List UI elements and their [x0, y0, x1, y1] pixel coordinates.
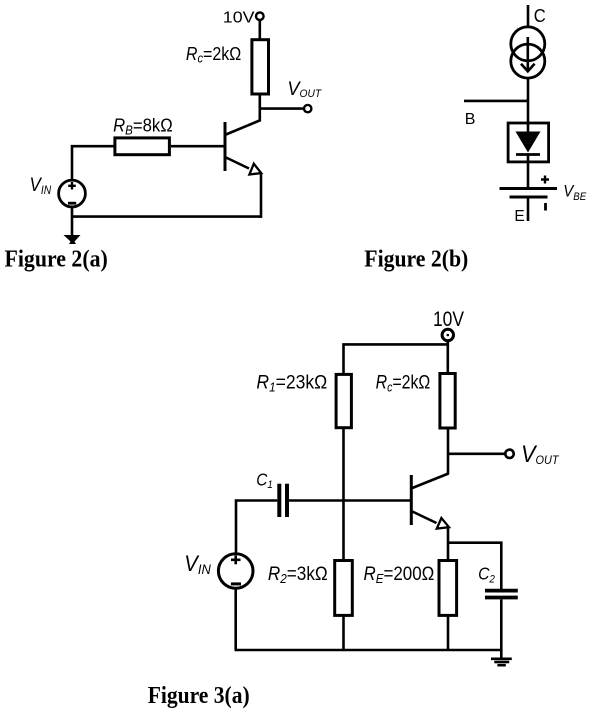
svg-text:R2=3kΩ: R2=3kΩ — [268, 564, 328, 586]
capacitor C2 — [485, 591, 518, 598]
wire C1 left to VIN top — [236, 501, 277, 555]
svg-text:10V: 10V — [223, 9, 255, 26]
wire R2 bottom to rail — [342, 615, 345, 650]
label + (battery plus) — [541, 176, 549, 184]
transistor Q1 (NPN, Figure 3a) — [411, 474, 449, 529]
label VIN (Figure 3a) — [184, 551, 211, 577]
label Rc=2kΩ (Figure 3a) — [376, 372, 431, 395]
svg-text:C: C — [534, 6, 546, 26]
svg-text:Figure 2(b): Figure 2(b) — [364, 247, 468, 273]
label R2=3kΩ — [268, 564, 328, 586]
label VIN (Figure 2a) — [30, 175, 52, 197]
label B — [465, 111, 476, 128]
battery VBE — [500, 189, 558, 198]
svg-text:RE=200Ω: RE=200Ω — [364, 564, 435, 586]
svg-text:Figure 2(a): Figure 2(a) — [5, 246, 108, 272]
wire collector node to VOUT terminal — [448, 452, 505, 455]
svg-text:B: B — [465, 111, 476, 128]
ground (Figure 3a) — [491, 659, 512, 665]
current source (two overlapped circles with arrow) — [511, 27, 545, 78]
node VOUT terminal (open circle) — [304, 105, 311, 112]
resistor R1=23kΩ — [336, 374, 351, 427]
wire VIN bottom to ground — [71, 207, 74, 236]
wire RB left to VIN top — [72, 146, 114, 180]
wire top rail (Figure 3a) — [344, 341, 448, 374]
wire current source to diode box — [527, 78, 530, 123]
wire base line C1 to base — [287, 499, 410, 502]
caption Figure 3(a) — [148, 683, 250, 709]
node 10V terminal (circle with dot) — [442, 329, 453, 340]
wire VIN bottom to bottom rail — [234, 589, 237, 651]
resistor Rc=2kΩ (Figure 3a) — [440, 374, 455, 429]
label - (battery minus tick) — [544, 203, 547, 211]
svg-text:10V: 10V — [433, 308, 464, 331]
source VIN (Figure 3a) — [218, 554, 253, 589]
wire Rc bottom to collector node — [447, 428, 450, 475]
wire Rc bottom to collector — [258, 94, 261, 121]
wire base to RB — [171, 145, 224, 148]
wire bottom rail (Figure 2a) — [72, 215, 261, 218]
node 10V terminal (open circle) — [256, 12, 264, 20]
label 10V (Figure 3a supply) — [433, 308, 464, 331]
label R1=23kΩ — [256, 372, 327, 395]
svg-text:Figure 3(a): Figure 3(a) — [148, 683, 250, 709]
wire C2 bottom to ground node — [500, 599, 503, 659]
caption Figure 2(a) — [5, 246, 108, 272]
svg-text:E: E — [514, 208, 524, 225]
svg-text:R1=23kΩ: R1=23kΩ — [256, 372, 327, 395]
wire diode box to battery — [527, 162, 530, 189]
label C1 — [256, 469, 273, 491]
label C — [534, 6, 546, 26]
wire Vcc down to Rc — [446, 343, 449, 374]
wire 10V terminal to Rc top — [258, 20, 261, 39]
wire emitter to bottom rail — [260, 173, 263, 218]
svg-text:Rc=2kΩ: Rc=2kΩ — [186, 44, 241, 66]
wire base lead B — [464, 100, 528, 103]
label VOUT — [287, 78, 322, 100]
label C2 — [478, 563, 495, 585]
resistor R2=3kΩ — [335, 561, 353, 616]
resistor RB=8kΩ — [115, 138, 169, 155]
resistor RE=200Ω — [439, 561, 457, 616]
wire bottom rail (Figure 3a) — [235, 649, 502, 652]
svg-text:RB=8kΩ: RB=8kΩ — [113, 116, 173, 138]
diode D1 in box — [508, 123, 548, 162]
wire collector lead C — [527, 5, 530, 28]
node VOUT terminal (Figure 3a) — [505, 450, 513, 458]
label RB=8kΩ — [113, 116, 173, 138]
wire emitter down to RE and branch to C2 — [448, 526, 501, 589]
label Rc=2kΩ — [186, 44, 241, 66]
resistor Rc=2kΩ (Figure 2a) — [252, 40, 269, 94]
caption Figure 2(b) — [364, 247, 468, 273]
wire node to VOUT terminal — [260, 107, 304, 110]
source VIN (Figure 2a) — [59, 180, 86, 207]
label 10V (Figure 2a supply) — [223, 9, 255, 26]
svg-text:Rc=2kΩ: Rc=2kΩ — [376, 372, 431, 395]
ground (Figure 2a) — [64, 235, 81, 244]
capacitor C1 — [279, 484, 287, 517]
wire RE bottom to rail — [447, 615, 450, 650]
label E — [514, 208, 524, 225]
label VBE — [563, 181, 587, 203]
label RE=200Ω — [364, 564, 435, 586]
transistor Q1 (NPN, Figure 2a) — [225, 120, 261, 175]
wire emitter lead E — [527, 197, 530, 221]
label VOUT (Figure 3a) — [521, 441, 560, 468]
wire R1 bottom through base node to R2 top — [342, 427, 345, 561]
